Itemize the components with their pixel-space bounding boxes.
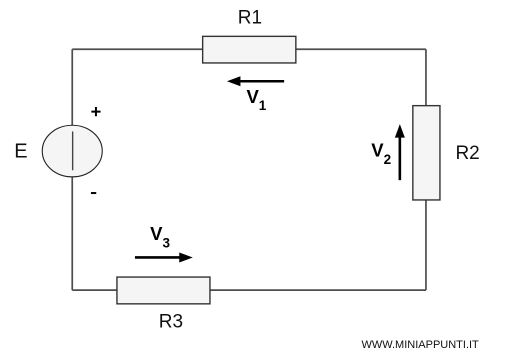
svg-text:R2: R2: [455, 143, 479, 164]
svg-text:V1: V1: [246, 86, 266, 113]
wire: right vertical: [425, 49, 427, 290]
resistor R1: [203, 36, 296, 63]
svg-text:V3: V3: [150, 223, 170, 251]
svg-text:R3: R3: [159, 312, 183, 333]
svg-text:V2: V2: [371, 140, 391, 167]
svg-text:WWW.MINIAPPUNTI.IT: WWW.MINIAPPUNTI.IT: [361, 339, 479, 351]
wire: bottom horizontal: [72, 289, 426, 291]
svg-text:R1: R1: [238, 8, 262, 29]
resistor R2: [413, 106, 440, 200]
voltage source E (circle): [42, 125, 102, 177]
arrow V3 (pointing right, above R3): [135, 252, 193, 262]
svg-text:E: E: [14, 140, 27, 162]
wire: left vertical: [71, 49, 73, 290]
arrow V2 (pointing up, left of R2): [395, 124, 405, 180]
wire: top horizontal from source top-left corner to right corner: [72, 48, 426, 50]
arrow V1 (pointing left, under R1): [227, 76, 284, 86]
minus sign: [91, 192, 96, 194]
voltage source internal bar: [72, 131, 74, 170]
resistor R3: [117, 277, 210, 304]
plus sign: [91, 107, 100, 116]
